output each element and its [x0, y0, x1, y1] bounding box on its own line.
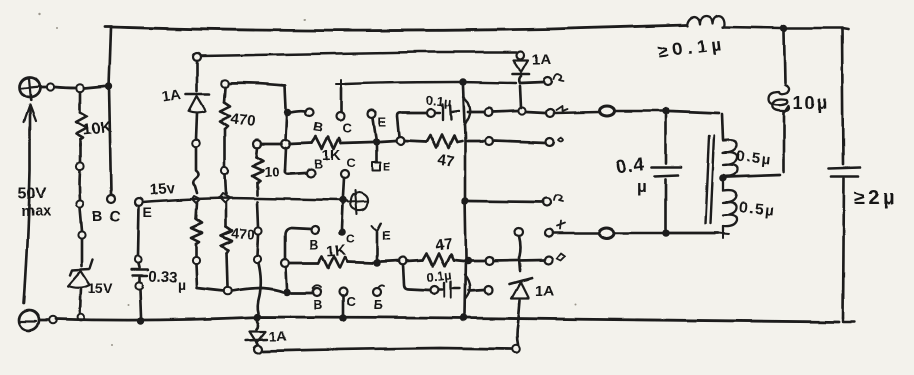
- terminal row B: [546, 109, 554, 117]
- svg-text:µ: µ: [178, 277, 186, 293]
- pin B lower-block: [311, 226, 319, 234]
- capacitor 0.1u upper: [427, 97, 470, 125]
- diode 1A left: [186, 61, 209, 139]
- svg-text:µ: µ: [637, 177, 647, 196]
- terminal row E: [545, 229, 553, 237]
- mark row F: [556, 253, 564, 260]
- transformer winding 0.5u upper: [723, 141, 737, 177]
- wire with kink: [193, 147, 198, 193]
- junction 292/B: [283, 288, 291, 296]
- capacitor 0.33u: [131, 264, 148, 282]
- stub: [469, 290, 485, 291]
- node 47 lower left: [399, 257, 407, 265]
- resistor below (diode col): [191, 203, 202, 256]
- junction bottom 0.33u: [137, 317, 144, 324]
- node: [192, 139, 200, 147]
- junction 1K lower /E: [373, 259, 381, 267]
- vertical B col upper: [285, 85, 286, 108]
- wire: [81, 239, 84, 266]
- node top of 470 col: [221, 79, 229, 87]
- wire: [54, 87, 76, 88]
- node: [76, 162, 83, 169]
- svg-text:1A: 1A: [161, 86, 183, 106]
- pin E upper: [368, 110, 376, 118]
- svg-text:≥2µ: ≥2µ: [854, 187, 898, 209]
- svg-text:470: 470: [229, 110, 256, 130]
- junction rail4/465: [459, 78, 467, 86]
- label 0.1u lower: [426, 267, 453, 285]
- phase mark circle-cross: [348, 190, 368, 214]
- junction B upper: [284, 108, 292, 116]
- top rail right part: [725, 27, 781, 28]
- mark row D: [554, 195, 563, 201]
- junction 15v/465 col: [461, 197, 468, 204]
- terminal row D: [543, 198, 551, 206]
- node cap lower right pin: [485, 286, 493, 294]
- tick E lower-block: [372, 223, 381, 231]
- svg-text:E: E: [383, 161, 390, 173]
- diamond junction 15v/diode col: [192, 196, 200, 203]
- diode 1A bottom left: [246, 321, 267, 344]
- wire C dot to 15v rail: [342, 204, 343, 228]
- label 50V max: [18, 185, 52, 220]
- node right end: [512, 345, 520, 353]
- svg-text:C: C: [346, 232, 355, 246]
- wire C mid to 15v rail: [343, 178, 344, 196]
- node: [254, 227, 261, 234]
- svg-text:E: E: [378, 115, 386, 129]
- svg-text:0.1µ: 0.1µ: [426, 267, 453, 285]
- resistor 470 lower: [221, 203, 232, 287]
- terminal row A: [544, 77, 552, 85]
- mark row E: [557, 221, 565, 229]
- tick transformer bottom: [718, 229, 729, 238]
- squiggle on B bottom: [313, 285, 321, 288]
- terminal row F: [544, 256, 552, 264]
- rail 2 (from diode col to right diode): [201, 52, 516, 56]
- terminal + (positive input): [20, 77, 40, 100]
- node E left: [135, 198, 143, 206]
- svg-text:10µ: 10µ: [793, 93, 829, 113]
- wire down to winding: [722, 114, 723, 140]
- svg-text:1A: 1A: [269, 328, 287, 344]
- wire: [78, 170, 81, 200]
- node: [221, 167, 228, 174]
- paper specks: [39, 13, 576, 346]
- top rail: [105, 25, 686, 31]
- label 0.1u upper: [426, 92, 453, 110]
- wire: [225, 175, 226, 194]
- arrow 50V max: [24, 105, 36, 303]
- wire B col down 2: [285, 148, 286, 170]
- wire elbow to 292 line: [196, 264, 224, 291]
- wire - terminal: [40, 319, 48, 322]
- resistor 470 upper: [220, 87, 230, 167]
- transformer core: [705, 136, 714, 223]
- junction bottom 465 col: [460, 314, 468, 322]
- diode 1A bottom right column top node: [515, 228, 523, 236]
- resistor 10K: [76, 92, 87, 146]
- rail 4: [345, 82, 516, 84]
- node: [49, 316, 57, 324]
- wire junction to B pin: [291, 111, 306, 112]
- label >=0.1u: [657, 34, 727, 62]
- pin C mid: [341, 170, 349, 178]
- zener diode 15V: [68, 260, 93, 313]
- svg-text:50V: 50V: [18, 185, 47, 202]
- hook up to 0.1u upper: [397, 113, 426, 137]
- svg-text:15V: 15V: [88, 280, 114, 296]
- wire 10u to top rail: [784, 32, 785, 83]
- svg-text:E: E: [143, 204, 152, 220]
- node: [78, 314, 85, 321]
- resistor 1K lower row: [289, 256, 373, 268]
- mark row B: [556, 106, 567, 111]
- svg-text:B: B: [313, 297, 322, 312]
- wire bottom line to transformer: [670, 232, 718, 235]
- svg-text:Б: Б: [374, 297, 383, 312]
- node: [78, 231, 85, 238]
- svg-text:1A: 1A: [532, 51, 551, 68]
- svg-text:1K: 1K: [326, 242, 346, 260]
- row D wire: [468, 201, 543, 202]
- pin C bottom: [339, 288, 347, 296]
- terminal row C: [546, 138, 554, 146]
- resistor 47 upper: [404, 135, 462, 148]
- wire to 47 lower: [381, 261, 399, 262]
- svg-text:C: C: [342, 120, 352, 135]
- lower block: hook B pin: [285, 228, 311, 259]
- junction 0.4u top: [662, 107, 670, 115]
- node top of 10: [253, 140, 261, 148]
- wire top rail end: [788, 28, 848, 29]
- node: [192, 256, 199, 263]
- wire diode down to row B: [520, 86, 521, 108]
- svg-text:10: 10: [264, 164, 280, 180]
- svg-text:B: B: [309, 237, 318, 252]
- rail 3 (470 top to B col): [229, 83, 285, 85]
- wire: [80, 208, 82, 231]
- svg-text:1K: 1K: [322, 147, 341, 164]
- svg-text:47: 47: [435, 235, 453, 254]
- transformer winding 0.5u lower: [723, 182, 737, 231]
- svg-text:47: 47: [436, 151, 455, 170]
- pin B lower: [307, 169, 315, 177]
- node: [224, 287, 232, 295]
- inductor >=0.1u (series choke on top rail): [687, 16, 725, 28]
- wire down: [519, 236, 521, 271]
- junction bottom C col: [339, 314, 347, 322]
- vertical 465 col: [463, 86, 466, 314]
- node C left: [107, 195, 115, 203]
- node: [46, 83, 53, 90]
- fork wire right (row A): [520, 82, 544, 83]
- tail on E bottom pin: [378, 285, 384, 288]
- 15v rail: [143, 198, 347, 202]
- svg-text:B: B: [92, 208, 103, 225]
- node: [254, 345, 262, 353]
- row F wire: [493, 260, 544, 261]
- svg-text:0.4: 0.4: [615, 154, 647, 179]
- label >=2u: [854, 187, 898, 209]
- stub: [470, 260, 485, 263]
- wire to 47: [380, 141, 396, 142]
- mark row C: [558, 138, 563, 142]
- capacitor >=2u: [829, 167, 860, 318]
- node: [135, 282, 142, 289]
- hook down to 0.1u lower: [403, 265, 429, 290]
- node: [76, 84, 84, 92]
- wire C bottom to rail: [342, 296, 345, 314]
- oval connector row E: [600, 228, 615, 239]
- left rail vertical (collector line): [109, 28, 111, 194]
- junction 1K/E: [372, 138, 380, 146]
- wire E down: [373, 118, 376, 138]
- line y292: [232, 288, 283, 292]
- junction 0.4u bottom: [662, 229, 670, 237]
- pin C lower-block (dot): [338, 228, 346, 236]
- svg-text:max: max: [21, 203, 52, 220]
- svg-text:470: 470: [231, 225, 256, 243]
- junction top rail / 10u: [780, 24, 787, 31]
- oval connector row B: [600, 106, 615, 116]
- node 1K lower left: [281, 259, 289, 267]
- wire 0.4u top to transformer: [670, 111, 719, 113]
- wire center tap right: [727, 175, 780, 177]
- node: [76, 200, 83, 207]
- svg-text:E: E: [382, 228, 391, 243]
- pin E bottom: [373, 288, 381, 296]
- wire: [257, 235, 258, 255]
- label 0.33u: [148, 268, 186, 293]
- pin B bottom: [313, 288, 321, 296]
- stub: [468, 111, 485, 114]
- node row B left: [485, 108, 493, 116]
- wire E down to 1K row: [376, 232, 379, 259]
- terminal - (negative input): [19, 310, 39, 330]
- node row B mid: [518, 107, 525, 114]
- wire: [79, 144, 82, 162]
- svg-text:10K: 10K: [82, 119, 113, 139]
- inductor 10u: [769, 85, 789, 112]
- square pad E mid: [372, 146, 380, 170]
- resistor 1K upper row: [290, 137, 372, 149]
- junction center tap: [719, 174, 727, 182]
- node 47 upper right: [485, 137, 493, 145]
- wire E down: [138, 206, 139, 256]
- capacitor 0.1u lower: [430, 275, 470, 299]
- wire B col down: [286, 116, 287, 140]
- hook to B pin lower: [285, 170, 306, 174]
- svg-text:0.33: 0.33: [148, 268, 178, 287]
- wire down crossing 292: [257, 263, 260, 313]
- ring junction 1K row: [282, 140, 291, 149]
- node top of diode col: [193, 53, 201, 61]
- wire + terminal to rail: [41, 86, 46, 89]
- node 47 upper left: [396, 137, 404, 145]
- wire 0.33u to bottom rail: [140, 290, 141, 317]
- diode 1A top right: [512, 51, 529, 83]
- wire oval to cap node: [615, 110, 662, 113]
- wire oval to cap bottom: [615, 232, 662, 235]
- resistor 10: [252, 148, 263, 195]
- node 47 lower right pin: [485, 257, 493, 265]
- capacitor 0.4u: [652, 115, 681, 229]
- label 0.4u: [615, 154, 647, 196]
- wire 15v col down (256): [257, 202, 258, 227]
- row B wire: [493, 111, 518, 112]
- junction 15v/C col: [339, 196, 347, 204]
- wire 10-node to ring: [261, 143, 282, 146]
- corner bottom right: [843, 318, 855, 322]
- svg-text:C: C: [347, 156, 356, 170]
- stub: [467, 140, 485, 143]
- svg-text:C: C: [346, 294, 356, 309]
- wire C up to rail4: [340, 88, 343, 112]
- bottom rail: [56, 317, 839, 322]
- wire B bottom to junction: [291, 292, 313, 295]
- wire: [84, 86, 105, 88]
- diode 1A bottom right: [510, 278, 532, 345]
- svg-text:0.1µ: 0.1µ: [426, 92, 453, 110]
- resistor 47 lower: [407, 253, 464, 266]
- row B wire 2: [526, 112, 545, 113]
- row E wire to oval: [553, 232, 599, 235]
- feedback line y349: [263, 348, 511, 351]
- pin C upper: [336, 112, 344, 120]
- junction bottom diode col: [253, 313, 261, 321]
- node: [134, 256, 141, 263]
- pin B upper: [306, 108, 314, 116]
- right rail down to cap: [842, 29, 843, 164]
- mark row A: [554, 74, 563, 81]
- svg-text:15v: 15v: [149, 179, 176, 199]
- junction 47 lower right: [464, 257, 471, 264]
- svg-text:1A: 1A: [535, 283, 554, 300]
- tick at rail4 corner: [336, 80, 347, 88]
- wire node down to 292: [286, 267, 287, 289]
- junction: [105, 82, 112, 89]
- diamond junction 15v/470 col: [220, 194, 230, 203]
- wire up to 10u: [783, 112, 786, 172]
- node: [253, 255, 260, 262]
- row C wire: [493, 141, 546, 143]
- row B wire to oval: [554, 112, 600, 113]
